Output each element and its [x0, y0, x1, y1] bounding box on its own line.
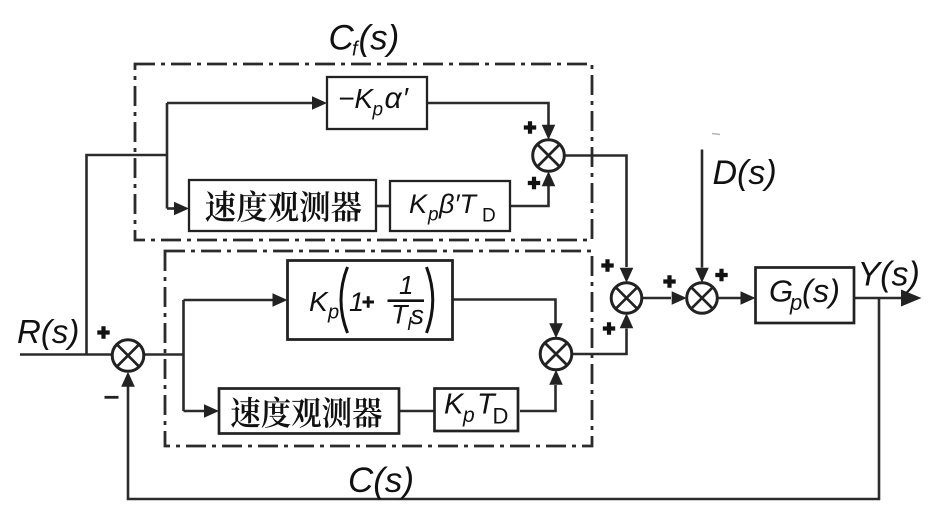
svg-text:D: D [482, 206, 496, 227]
svg-text:Y(s): Y(s) [858, 256, 920, 294]
svg-text:1: 1 [399, 270, 413, 300]
svg-text:p: p [789, 290, 802, 315]
svg-text:β′T: β′T [438, 189, 478, 219]
svg-text:K: K [309, 286, 329, 317]
svg-text:p: p [427, 205, 439, 226]
svg-text:R(s): R(s) [17, 313, 79, 350]
svg-text:α: α [385, 82, 403, 115]
svg-text:−K: −K [338, 83, 374, 114]
svg-text:D: D [493, 404, 509, 429]
svg-text:K: K [444, 389, 465, 421]
svg-text:C: C [329, 19, 355, 58]
svg-text:D(s): D(s) [713, 154, 777, 192]
svg-text:(s): (s) [802, 273, 840, 309]
svg-text:p: p [327, 302, 339, 324]
svg-text:p: p [462, 404, 475, 427]
svg-text:K: K [409, 189, 428, 219]
svg-text:(s): (s) [359, 19, 400, 58]
svg-text:p: p [372, 100, 384, 121]
svg-text:1: 1 [349, 287, 364, 317]
svg-text:s: s [411, 300, 425, 330]
svg-text:C(s): C(s) [348, 461, 414, 500]
